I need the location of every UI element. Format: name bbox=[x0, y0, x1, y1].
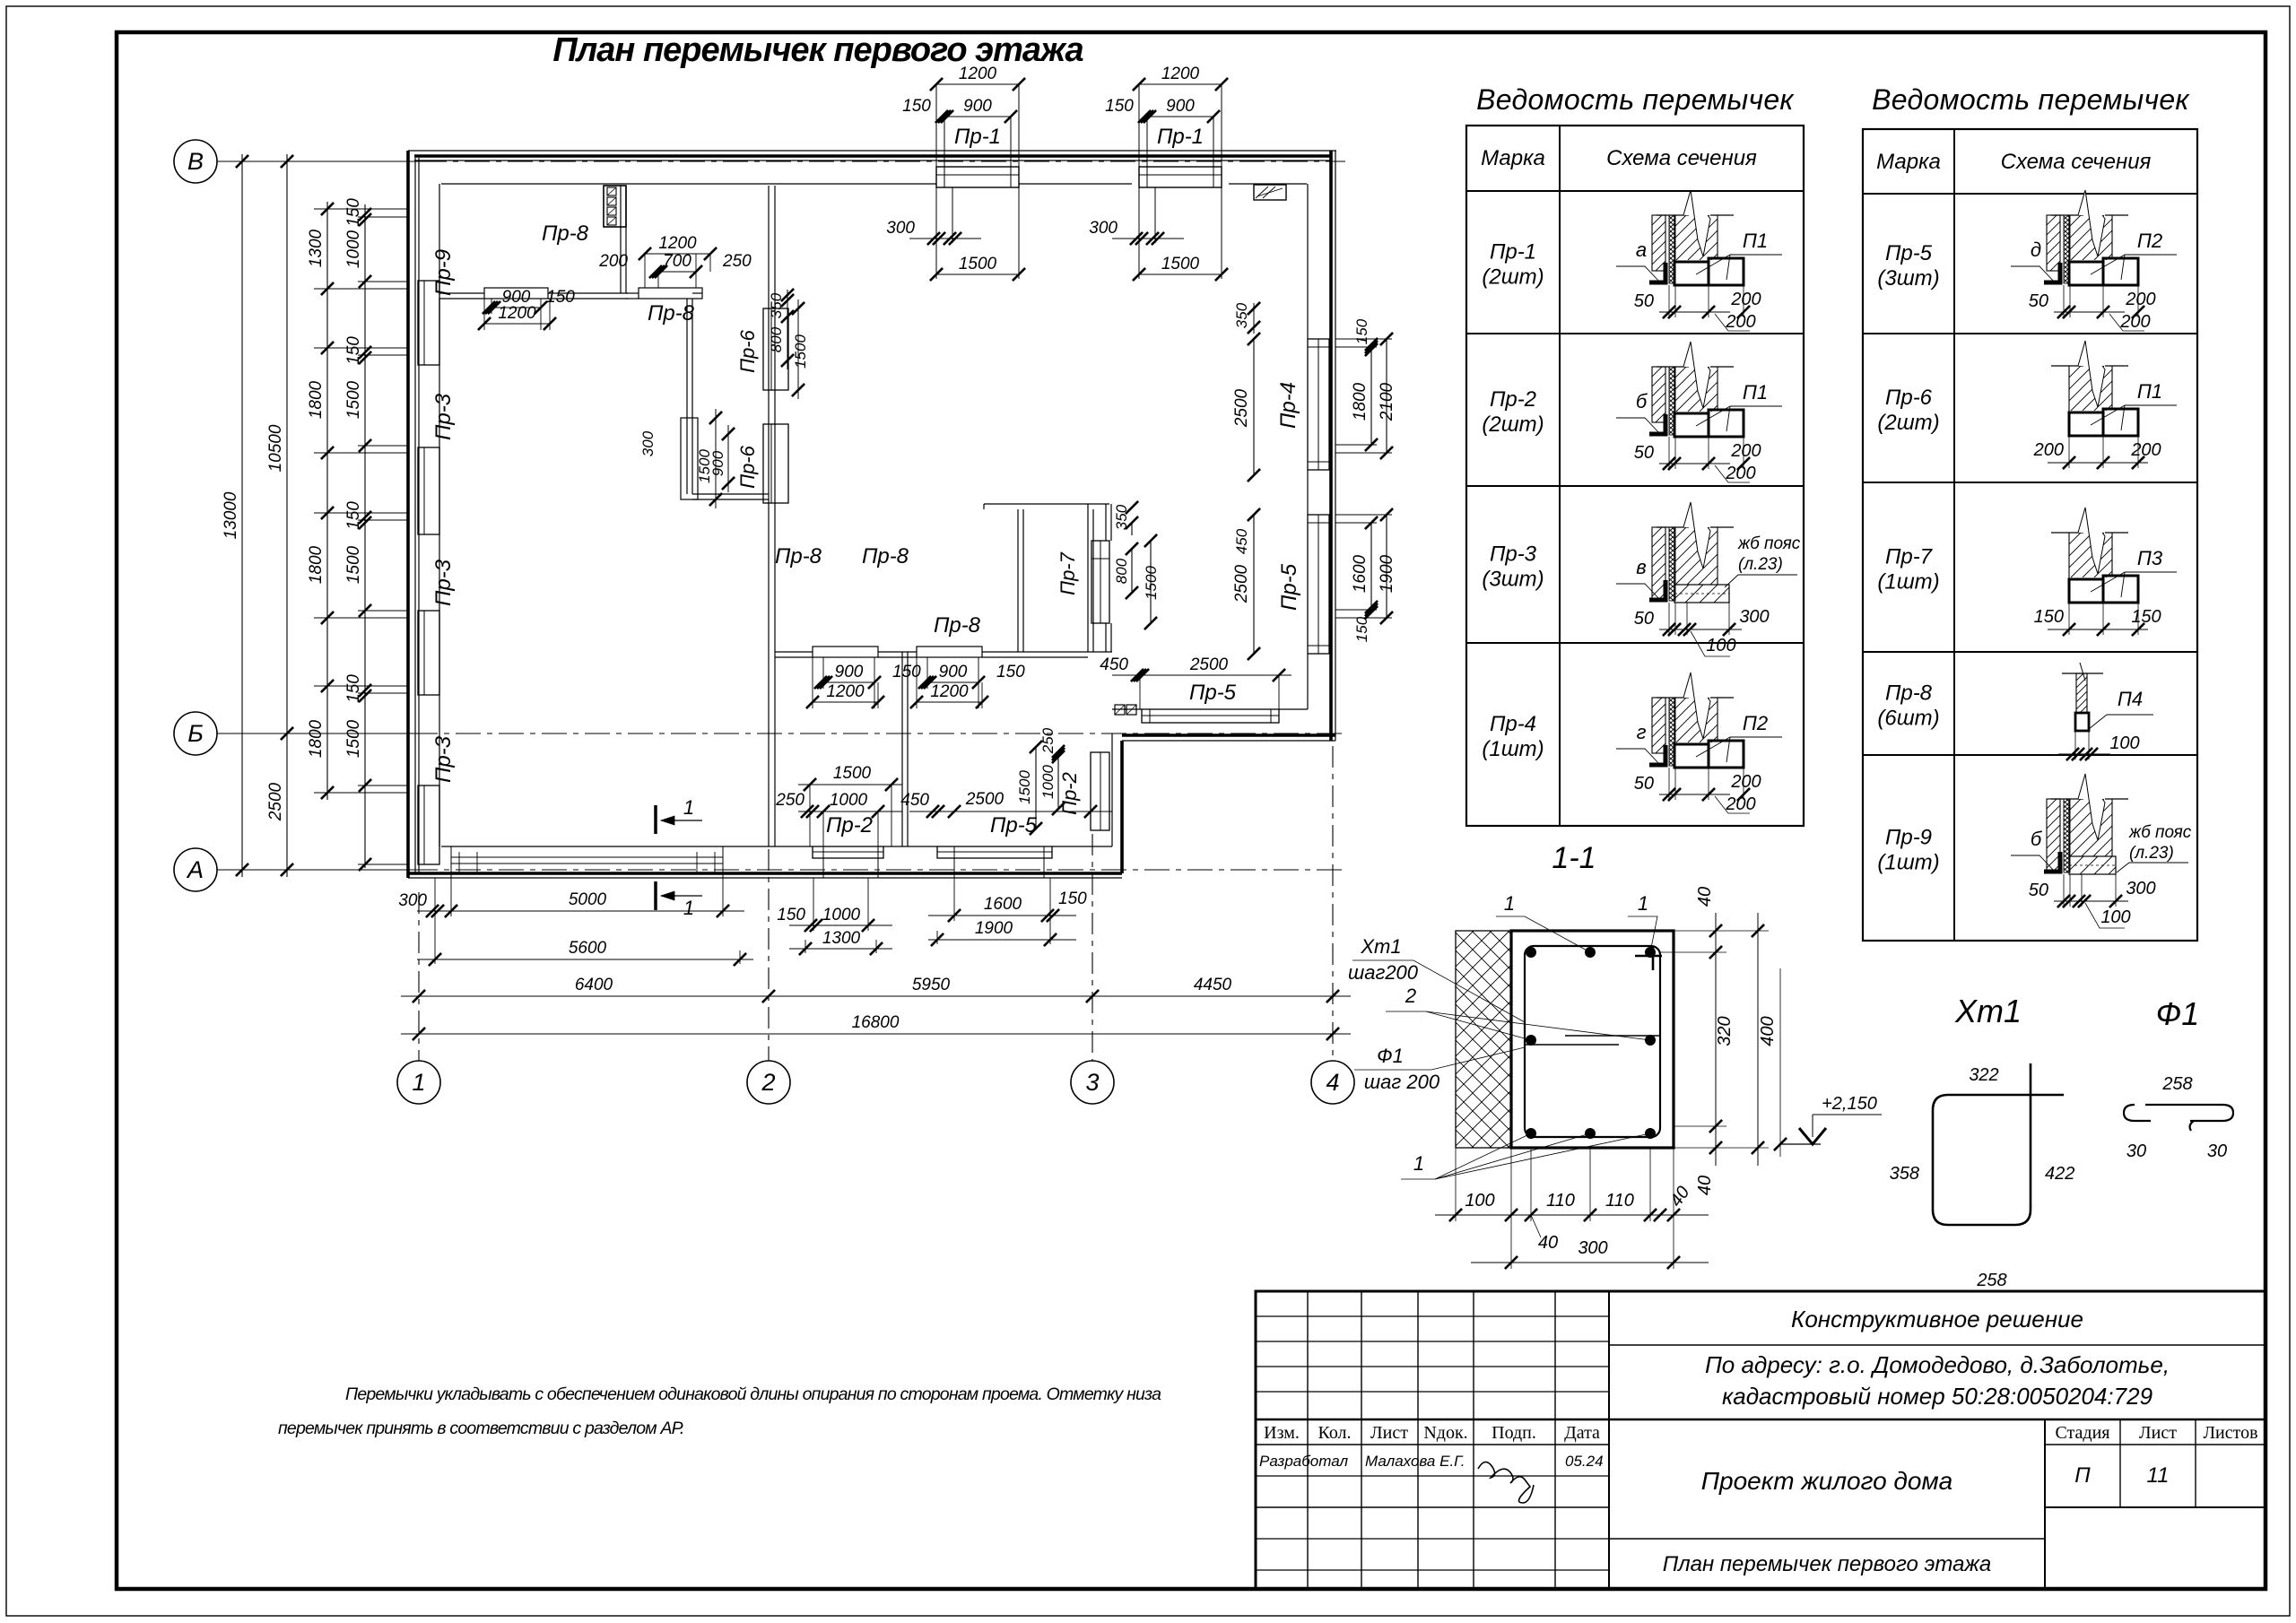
Ф1 bar shape bbox=[2124, 1105, 2233, 1131]
dim 1500 inside bbox=[1139, 273, 1222, 275]
dims doors H2 #2 bbox=[927, 681, 978, 683]
sketch dims bbox=[1659, 311, 1730, 313]
svg-text:Пр-8: Пр-8 bbox=[934, 613, 981, 638]
svg-text:1500: 1500 bbox=[344, 545, 363, 584]
svg-text:40: 40 bbox=[1695, 887, 1715, 907]
svg-text:1500: 1500 bbox=[1161, 255, 1200, 273]
svg-text:1800: 1800 bbox=[1351, 382, 1370, 421]
left dim chain 150/1000/1500 bbox=[364, 204, 366, 868]
svg-text:300: 300 bbox=[1739, 607, 1769, 627]
svg-text:150: 150 bbox=[2034, 607, 2064, 627]
svg-text:жб пояс: жб пояс bbox=[2128, 823, 2192, 842]
right dim 400 bbox=[1757, 913, 1759, 1166]
svg-text:150: 150 bbox=[1353, 616, 1370, 642]
svg-text:150: 150 bbox=[344, 198, 363, 227]
dims 450/2500 bottom Пр-5 bbox=[909, 811, 1112, 812]
sketch main wall hatched with break bbox=[2051, 798, 2083, 800]
closet walls H3 bbox=[984, 503, 1109, 505]
door lintel box Пр-8 #4 bbox=[917, 647, 982, 657]
left dim chain 1300/1800 bbox=[326, 202, 328, 800]
sketch left leaf hatched bbox=[2047, 215, 2060, 271]
svg-text:Пр-2: Пр-2 bbox=[1490, 387, 1536, 412]
svg-text:50: 50 bbox=[1634, 609, 1654, 629]
svg-text:Малахова Е.Г.: Малахова Е.Г. bbox=[1365, 1453, 1465, 1470]
svg-text:П1: П1 bbox=[1743, 381, 1768, 404]
signature bbox=[1478, 1462, 1534, 1503]
section mark 1 lower bbox=[654, 881, 657, 910]
cell Проект жилого дома bbox=[1609, 1538, 2045, 1540]
sketch dims bbox=[1659, 463, 1730, 464]
svg-text:2500: 2500 bbox=[1232, 388, 1251, 428]
svg-text:Пр-9: Пр-9 bbox=[431, 249, 456, 296]
svg-text:200: 200 bbox=[1730, 441, 1761, 461]
svg-text:(1шт): (1шт) bbox=[1482, 737, 1544, 761]
svg-text:Nдок.: Nдок. bbox=[1423, 1423, 1467, 1443]
svg-text:1800: 1800 bbox=[307, 545, 326, 584]
sketch left leaf hatched bbox=[2047, 799, 2060, 872]
dims 900/150 and 1200 below door #1 bbox=[491, 307, 541, 308]
svg-text:11: 11 bbox=[2147, 1463, 2170, 1488]
svg-text:1: 1 bbox=[683, 796, 694, 819]
svg-text:13000: 13000 bbox=[222, 491, 240, 539]
sketch belt block dashed bbox=[1674, 585, 1729, 603]
dims 350/800/1500 for Пр-6 window bbox=[787, 290, 788, 369]
svg-text:2500: 2500 bbox=[1189, 655, 1229, 674]
svg-text:350: 350 bbox=[1233, 302, 1250, 328]
svg-text:50: 50 bbox=[1634, 443, 1654, 463]
sketch dims bbox=[2058, 753, 2110, 755]
svg-text:4: 4 bbox=[1326, 1069, 1339, 1096]
svg-text:300: 300 bbox=[398, 891, 427, 910]
svg-text:110: 110 bbox=[1546, 1191, 1575, 1211]
svg-text:Пр-1: Пр-1 bbox=[954, 125, 1001, 149]
svg-text:50: 50 bbox=[1634, 291, 1654, 311]
svg-text:Марка: Марка bbox=[1481, 146, 1545, 170]
svg-text:100: 100 bbox=[2100, 907, 2130, 927]
svg-text:Ф1: Ф1 bbox=[1377, 1045, 1404, 1067]
svg-text:150: 150 bbox=[1058, 890, 1087, 908]
svg-text:150: 150 bbox=[1105, 97, 1134, 116]
axis circle 1 bbox=[397, 1061, 440, 1104]
svg-text:Лист: Лист bbox=[1370, 1423, 1408, 1443]
svg-text:1900: 1900 bbox=[975, 919, 1013, 938]
svg-text:1: 1 bbox=[412, 1069, 425, 1096]
interior wall H4 bbox=[692, 493, 769, 495]
svg-text:250: 250 bbox=[722, 252, 752, 271]
svg-text:1600: 1600 bbox=[1351, 554, 1370, 593]
dim 150/1000 bbox=[789, 924, 892, 926]
sketch main wall hatched with break bbox=[2051, 365, 2083, 367]
svg-text:1900: 1900 bbox=[1378, 554, 1396, 593]
svg-text:Ведомость перемычек: Ведомость перемычек bbox=[1476, 83, 1795, 116]
svg-text:в: в bbox=[1636, 556, 1646, 578]
svg-text:1: 1 bbox=[683, 897, 694, 919]
stirrup rounded bbox=[1525, 946, 1660, 1137]
svg-text:Пр-8: Пр-8 bbox=[542, 221, 589, 246]
axis circle В bbox=[174, 140, 217, 183]
svg-text:2500: 2500 bbox=[1232, 564, 1251, 603]
svg-text:1200: 1200 bbox=[959, 65, 997, 83]
svg-text:Проект жилого дома: Проект жилого дома bbox=[1701, 1467, 1953, 1495]
svg-text:200: 200 bbox=[1725, 794, 1755, 814]
svg-text:150: 150 bbox=[344, 336, 363, 365]
bottom dim 100/110/110/40 bbox=[1435, 1214, 1709, 1216]
left wall lintel box bbox=[418, 281, 439, 365]
interior wall V4 bbox=[901, 652, 903, 846]
vent block wall V2 bbox=[620, 186, 622, 293]
svg-text:шаг 200: шаг 200 bbox=[1364, 1071, 1440, 1093]
svg-text:300: 300 bbox=[2126, 879, 2155, 898]
svg-text:1800: 1800 bbox=[307, 380, 326, 419]
door lintel box Пр-8 #2 bbox=[639, 288, 702, 299]
svg-text:Пр-5: Пр-5 bbox=[1277, 563, 1301, 611]
svg-text:(л.23): (л.23) bbox=[2129, 844, 2174, 863]
svg-text:жб пояс: жб пояс bbox=[1737, 534, 1801, 553]
svg-text:Пр-6: Пр-6 bbox=[736, 445, 759, 489]
svg-text:Пр-6: Пр-6 bbox=[736, 329, 759, 373]
vent shaft block bbox=[604, 186, 626, 227]
sketch channel strip bbox=[2064, 799, 2070, 872]
svg-text:150: 150 bbox=[2131, 607, 2161, 627]
svg-text:(3шт): (3шт) bbox=[1877, 266, 1939, 291]
svg-text:450: 450 bbox=[1100, 655, 1128, 674]
sketch dims bbox=[1659, 794, 1730, 795]
window Пр-5 bottom lintel box bbox=[937, 846, 1052, 858]
left wall lintel box bbox=[418, 611, 439, 695]
svg-text:300: 300 bbox=[639, 430, 657, 456]
beam concrete outline bbox=[1511, 931, 1674, 1148]
sketch main wall hatched with break bbox=[2051, 214, 2083, 216]
dim 1300 bbox=[789, 948, 892, 950]
vent block 2 bbox=[1115, 705, 1125, 715]
axis circle 3 bbox=[1071, 1061, 1114, 1104]
svg-text:150: 150 bbox=[546, 288, 575, 307]
sketch lintel blocks bbox=[1674, 262, 1709, 285]
door lintel box Пр-8 #1 bbox=[484, 288, 548, 299]
dim 150/900 over window Пр-1 bbox=[944, 116, 1011, 117]
svg-text:(л.23): (л.23) bbox=[1738, 555, 1783, 574]
sketch black angle bbox=[1649, 263, 1665, 282]
svg-text:Листов: Листов bbox=[2203, 1423, 2257, 1443]
svg-text:Пр-5: Пр-5 bbox=[990, 813, 1038, 838]
sketch left leaf hatched bbox=[1652, 215, 1665, 271]
dim 1900 bbox=[928, 939, 1076, 941]
left exterior wall bbox=[406, 151, 410, 878]
rebar dots bbox=[1526, 947, 1536, 958]
dim 1500 inside bbox=[936, 273, 1019, 275]
svg-text:Пр-5: Пр-5 bbox=[1885, 241, 1933, 265]
sketch channel strip bbox=[1669, 215, 1675, 283]
svg-text:(6шт): (6шт) bbox=[1877, 707, 1939, 731]
axis line 3 bbox=[1091, 834, 1093, 1061]
svg-text:200: 200 bbox=[2125, 290, 2155, 309]
bottom-right wing south wall bbox=[1112, 708, 1142, 710]
south window Пр-5 of right wing bbox=[1142, 709, 1279, 723]
svg-text:б: б bbox=[1636, 390, 1648, 412]
window Пр-4 east lintel box bbox=[1308, 339, 1329, 470]
window Пр-5 east lintel box bbox=[1308, 515, 1329, 654]
sketch lintel blocks bbox=[2069, 579, 2103, 603]
svg-text:Схема сечения: Схема сечения bbox=[2001, 150, 2152, 174]
left dim chain 10500/2500 bbox=[286, 154, 288, 877]
svg-text:05.24: 05.24 bbox=[1565, 1453, 1604, 1470]
svg-text:1500: 1500 bbox=[792, 334, 809, 369]
svg-text:Пр-7: Пр-7 bbox=[1057, 551, 1079, 595]
insulation hatched strip bbox=[1456, 931, 1511, 1148]
axis line 1 bbox=[418, 892, 420, 1061]
svg-text:200: 200 bbox=[1725, 464, 1755, 483]
svg-text:1000: 1000 bbox=[1039, 765, 1057, 799]
svg-text:Дата: Дата bbox=[1564, 1423, 1600, 1443]
svg-text:358: 358 bbox=[1890, 1164, 1919, 1184]
svg-text:200: 200 bbox=[1725, 312, 1755, 332]
top-right hook bbox=[1635, 955, 1662, 958]
title block left grid bbox=[1307, 1291, 1309, 1589]
sketch lintel blocks bbox=[2069, 262, 2103, 285]
svg-text:1500: 1500 bbox=[344, 380, 363, 419]
interior wall V2b bbox=[686, 299, 688, 494]
svg-text:Пр-9: Пр-9 bbox=[1885, 826, 1932, 850]
sketch dims bbox=[2048, 629, 2148, 630]
svg-text:Конструктивное решение: Конструктивное решение bbox=[1791, 1306, 2083, 1332]
svg-text:Пр-6: Пр-6 bbox=[1885, 386, 1933, 410]
sketch black angle bbox=[2044, 263, 2060, 282]
sketch main wall hatched with break bbox=[1657, 366, 1689, 368]
svg-text:1800: 1800 bbox=[307, 719, 326, 758]
step wall at entrance bbox=[1111, 733, 1113, 846]
sketch thin wall bar bbox=[2062, 673, 2103, 674]
svg-text:1: 1 bbox=[1638, 892, 1648, 915]
extension lines bottom bbox=[434, 878, 436, 964]
dims 1500/250/1000 bottom Пр-2 window bbox=[798, 784, 902, 785]
svg-text:150: 150 bbox=[1353, 318, 1370, 344]
closet wall V5 bbox=[1017, 509, 1019, 652]
title block frame bbox=[1256, 1291, 2266, 1589]
svg-text:16800: 16800 bbox=[852, 1013, 900, 1032]
window Пр-1 jamb lines bbox=[1138, 84, 1140, 184]
svg-text:По адресу: г.о. Домодедово, д.: По адресу: г.о. Домодедово, д.Заболотье, bbox=[1705, 1351, 2170, 1378]
svg-text:1300: 1300 bbox=[307, 229, 326, 267]
svg-text:200: 200 bbox=[2119, 312, 2150, 332]
svg-text:4450: 4450 bbox=[1194, 976, 1232, 994]
svg-text:В: В bbox=[187, 148, 204, 175]
Хт1 stirrup shape bbox=[1933, 1063, 2064, 1225]
svg-text:П1: П1 bbox=[1743, 230, 1768, 252]
svg-text:Пр-4: Пр-4 bbox=[1490, 712, 1536, 736]
dim 150/900 over window Пр-1 bbox=[1147, 116, 1213, 117]
svg-text:(1шт): (1шт) bbox=[1877, 570, 1939, 595]
svg-text:50: 50 bbox=[2029, 881, 2048, 900]
svg-text:450: 450 bbox=[900, 791, 929, 810]
svg-text:200: 200 bbox=[598, 252, 628, 271]
axis circle А bbox=[174, 848, 217, 891]
svg-text:150: 150 bbox=[902, 97, 931, 116]
svg-text:100: 100 bbox=[1706, 636, 1735, 655]
svg-text:1200: 1200 bbox=[930, 682, 969, 701]
svg-text:П3: П3 bbox=[2137, 547, 2163, 569]
svg-text:322: 322 bbox=[1969, 1065, 1998, 1085]
svg-text:Пр-2: Пр-2 bbox=[1058, 772, 1081, 815]
svg-text:200: 200 bbox=[1730, 772, 1761, 792]
svg-text:Стадия: Стадия bbox=[2055, 1423, 2109, 1443]
section mark 1 upper bbox=[654, 805, 657, 834]
svg-text:б: б bbox=[2031, 828, 2043, 850]
svg-text:800: 800 bbox=[1113, 558, 1130, 584]
svg-text:2100: 2100 bbox=[1378, 382, 1396, 421]
svg-text:1500: 1500 bbox=[344, 719, 363, 758]
entrance door dims bbox=[1057, 754, 1059, 809]
svg-text:250: 250 bbox=[775, 791, 804, 810]
svg-text:1000: 1000 bbox=[830, 791, 868, 810]
svg-text:800: 800 bbox=[768, 326, 785, 352]
svg-text:258: 258 bbox=[2161, 1074, 2192, 1094]
top exterior wall bbox=[408, 150, 1336, 152]
svg-text:Пр-4: Пр-4 bbox=[1276, 382, 1300, 429]
axis line 2 bbox=[768, 849, 770, 1061]
sketch black angle bbox=[1649, 414, 1665, 434]
svg-text:1200: 1200 bbox=[658, 234, 697, 253]
svg-text:100: 100 bbox=[1465, 1191, 1494, 1211]
sketch dims bbox=[2054, 900, 2128, 902]
svg-text:2: 2 bbox=[761, 1069, 775, 1096]
svg-text:150: 150 bbox=[344, 501, 363, 530]
right exterior wall bbox=[1329, 151, 1333, 741]
svg-text:(2шт): (2шт) bbox=[1482, 412, 1544, 437]
sketch dims bbox=[2054, 311, 2125, 313]
left wall lintel box bbox=[418, 447, 439, 534]
svg-text:40: 40 bbox=[1538, 1233, 1558, 1253]
svg-text:5600: 5600 bbox=[569, 939, 607, 958]
svg-text:300: 300 bbox=[886, 219, 915, 238]
svg-text:Пр-8: Пр-8 bbox=[648, 301, 695, 325]
cells Стадия Лист Листов bbox=[2044, 1419, 2046, 1589]
svg-text:422: 422 bbox=[2045, 1164, 2074, 1184]
svg-text:Пр-8: Пр-8 bbox=[775, 544, 822, 568]
sketch thin block bbox=[2075, 713, 2089, 731]
svg-text:50: 50 bbox=[1634, 774, 1654, 794]
sketch channel strip bbox=[1669, 367, 1675, 435]
svg-text:1500: 1500 bbox=[833, 764, 872, 783]
sketch belt block dashed bbox=[2069, 856, 2116, 874]
axis circle Б bbox=[174, 712, 217, 755]
svg-text:Разработал: Разработал bbox=[1259, 1453, 1348, 1470]
cell Конструктивное решение bbox=[1609, 1344, 2266, 1346]
dim 300/5000 bbox=[417, 910, 744, 912]
axis circle 4 bbox=[1311, 1061, 1354, 1104]
table 1 frame bbox=[1466, 126, 1804, 826]
svg-text:200: 200 bbox=[2130, 440, 2161, 460]
sketch main wall hatched with break bbox=[1657, 526, 1689, 528]
svg-text:1200: 1200 bbox=[1161, 65, 1200, 83]
svg-text:(1шт): (1шт) bbox=[1877, 851, 1939, 875]
svg-text:900: 900 bbox=[709, 450, 726, 476]
sketch left leaf hatched bbox=[1652, 367, 1665, 422]
sketch main wall hatched with break bbox=[1657, 214, 1689, 216]
svg-text:2500: 2500 bbox=[266, 782, 285, 821]
svg-text:1200: 1200 bbox=[498, 304, 536, 323]
svg-text:План перемычек первого этажа: План перемычек первого этажа bbox=[552, 31, 1083, 69]
svg-text:д: д bbox=[2031, 239, 2041, 261]
svg-text:Подп.: Подп. bbox=[1492, 1423, 1536, 1443]
wall V7 with window Пр-7 bbox=[1105, 504, 1107, 541]
table 2 frame bbox=[1863, 129, 2197, 941]
interior wall V3 bbox=[768, 186, 770, 846]
svg-text:Схема сечения: Схема сечения bbox=[1606, 146, 1757, 170]
svg-text:Пр-5: Пр-5 bbox=[1189, 681, 1237, 705]
svg-text:перемычек принять в соответств: перемычек принять в соответствии с разде… bbox=[278, 1419, 683, 1438]
svg-text:100: 100 bbox=[2109, 733, 2139, 753]
sketch dims bbox=[1659, 629, 1742, 630]
dim 16800 bbox=[401, 1033, 1351, 1035]
svg-text:Пр-3: Пр-3 bbox=[431, 393, 456, 440]
svg-text:Пр-1: Пр-1 bbox=[1157, 125, 1204, 149]
svg-text:Пр-8: Пр-8 bbox=[1885, 681, 1933, 706]
svg-text:1600: 1600 bbox=[984, 895, 1022, 914]
svg-text:1000: 1000 bbox=[344, 230, 363, 268]
svg-text:30: 30 bbox=[2126, 1141, 2146, 1161]
svg-text:30: 30 bbox=[2207, 1141, 2227, 1161]
left wall lintel box bbox=[418, 785, 439, 864]
svg-text:Хт1: Хт1 bbox=[1360, 935, 1401, 958]
dim 5600 bbox=[417, 959, 753, 960]
svg-text:Кол.: Кол. bbox=[1318, 1423, 1351, 1443]
svg-text:Лист: Лист bbox=[2139, 1423, 2177, 1443]
svg-text:1000: 1000 bbox=[822, 906, 861, 924]
bottom dim 300 bbox=[1471, 1262, 1709, 1263]
middle bar lines bbox=[1525, 1044, 1619, 1046]
svg-text:Перемычки укладывать с обеспеч: Перемычки укладывать с обеспечением один… bbox=[345, 1384, 1161, 1404]
interior wall H2 with doors bbox=[775, 651, 813, 653]
svg-text:10500: 10500 bbox=[266, 424, 285, 472]
svg-text:300: 300 bbox=[1089, 219, 1118, 238]
svg-text:Пр-8: Пр-8 bbox=[862, 544, 909, 568]
svg-text:1: 1 bbox=[1413, 1152, 1424, 1175]
svg-text:1500: 1500 bbox=[1143, 566, 1160, 600]
sketch main wall hatched with break bbox=[2051, 532, 2083, 534]
svg-text:3: 3 bbox=[1085, 1069, 1099, 1096]
svg-text:50: 50 bbox=[2029, 291, 2048, 311]
svg-text:900: 900 bbox=[939, 663, 968, 681]
svg-text:Пр-2: Пр-2 bbox=[826, 813, 873, 838]
svg-text:700: 700 bbox=[663, 252, 691, 271]
svg-text:1500: 1500 bbox=[1016, 770, 1033, 804]
window boxes Пр-6 in V3 bbox=[763, 308, 788, 390]
sketch black angle bbox=[1649, 580, 1665, 600]
sketch lintel blocks bbox=[2069, 412, 2103, 436]
dim 1200 over window Пр-1 bbox=[936, 83, 1019, 85]
svg-text:П2: П2 bbox=[2137, 230, 2162, 252]
sketch left leaf hatched bbox=[1652, 698, 1665, 753]
dim 1600/150 bbox=[928, 915, 1076, 916]
svg-text:План перемычек первого этажа: План перемычек первого этажа bbox=[1663, 1552, 1992, 1576]
window Пр-1 jamb lines bbox=[935, 84, 937, 184]
sketch main wall hatched with break bbox=[1657, 697, 1689, 699]
axis line 4 bbox=[1332, 746, 1334, 1061]
svg-text:Б: Б bbox=[187, 720, 204, 747]
window box Пр-7 bbox=[1091, 541, 1109, 623]
svg-text:Ведомость перемычек: Ведомость перемычек bbox=[1872, 83, 2190, 116]
svg-text:200: 200 bbox=[1730, 290, 1761, 309]
svg-text:П2: П2 bbox=[1743, 712, 1768, 734]
sketch lintel blocks bbox=[1674, 744, 1709, 768]
svg-text:900: 900 bbox=[1166, 97, 1195, 116]
sketch black angle bbox=[2044, 852, 2060, 872]
svg-text:г: г bbox=[1637, 721, 1647, 743]
east outside dims Пр-4 bbox=[1370, 347, 1372, 445]
svg-text:110: 110 bbox=[1605, 1191, 1634, 1211]
svg-text:Пр-3: Пр-3 bbox=[1490, 542, 1537, 567]
axis line А bbox=[217, 869, 413, 871]
